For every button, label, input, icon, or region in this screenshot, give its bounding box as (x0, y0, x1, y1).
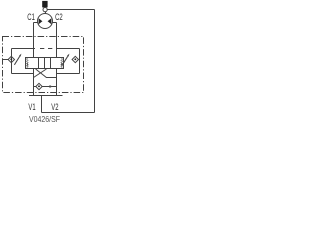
valve enclosure (3, 37, 84, 93)
wire V1 line (33, 69, 35, 96)
svg-text:C2: C2 (55, 12, 63, 22)
wire C2 stub (52, 22, 56, 24)
wire C2 line (56, 23, 58, 58)
adjust arrow RV1 (14, 56, 19, 65)
wire C1 stub (34, 22, 38, 24)
motor triangle right (48, 18, 52, 24)
check valve center (36, 83, 42, 89)
svg-text:V1: V1 (28, 102, 35, 112)
adjust arrow RV2 (62, 56, 67, 65)
pulley (43, 8, 47, 12)
wire riser (41, 96, 43, 113)
wire pilot cross B (34, 69, 47, 78)
wire left branch (11, 49, 13, 74)
wire rope top (47, 9, 94, 11)
wire right branch bottom (57, 73, 80, 75)
node ports line (29, 95, 63, 97)
check valve right (72, 56, 78, 62)
motor triangle left (39, 18, 43, 24)
wire rope bottom (42, 112, 95, 114)
wire pulley to motor (45, 12, 47, 14)
wire anticav line (34, 86, 57, 88)
wire right branch (79, 49, 81, 74)
motor M1 (38, 14, 53, 29)
wire pilot cross A (36, 69, 57, 78)
wire left branch bottom (12, 73, 34, 75)
pilot box RV1 (39, 58, 45, 69)
load mass M (42, 1, 47, 8)
wire rope right (94, 10, 96, 113)
wire C1 line (33, 23, 35, 58)
wire V2 line (56, 69, 58, 96)
arrow flow direction (50, 85, 53, 88)
pilot box RV2 (45, 58, 51, 69)
wire right pilot top (57, 48, 80, 50)
svg-text:C1: C1 (27, 12, 35, 22)
relief arrow RV1 (27, 63, 29, 67)
spring RV2 (61, 58, 63, 68)
wire left pilot top (12, 48, 36, 50)
spring RV1 (26, 58, 28, 68)
svg-text:V0426/SF: V0426/SF (29, 115, 60, 124)
wire check stub (3, 59, 9, 61)
wire pilot crossover dashed (40, 48, 57, 50)
svg-text:V2: V2 (51, 102, 58, 112)
relief arrow RV2 (61, 63, 63, 67)
relief valve RV2 body (51, 58, 64, 69)
check valve left (8, 56, 14, 62)
relief valve RV1 body (26, 58, 39, 69)
